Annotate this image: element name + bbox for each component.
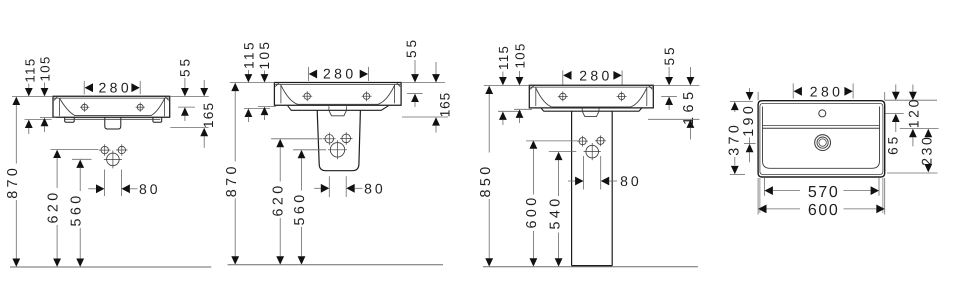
svg-text:620: 620 — [46, 189, 62, 223]
svg-text:280: 280 — [579, 68, 613, 84]
svg-text:80: 80 — [364, 181, 386, 197]
svg-text:55: 55 — [662, 44, 677, 65]
svg-text:105: 105 — [513, 42, 528, 68]
svg-text:165: 165 — [438, 92, 453, 117]
svg-text:165: 165 — [201, 102, 216, 128]
svg-text:570: 570 — [808, 184, 840, 201]
svg-text:850: 850 — [478, 163, 494, 197]
svg-text:190: 190 — [741, 103, 757, 137]
svg-text:280: 280 — [99, 80, 133, 96]
svg-text:55: 55 — [178, 56, 193, 77]
svg-text:55: 55 — [404, 37, 419, 58]
svg-text:870: 870 — [5, 165, 21, 199]
svg-text:105: 105 — [38, 55, 53, 81]
svg-text:600: 600 — [808, 202, 840, 219]
svg-text:80: 80 — [139, 181, 161, 197]
svg-text:560: 560 — [69, 192, 85, 226]
svg-text:540: 540 — [547, 195, 563, 229]
svg-text:115: 115 — [496, 45, 511, 70]
svg-text:560: 560 — [292, 191, 308, 225]
svg-text:280: 280 — [323, 66, 357, 82]
svg-text:65: 65 — [886, 134, 901, 155]
svg-text:105: 105 — [257, 40, 272, 70]
svg-text:80: 80 — [620, 173, 642, 189]
svg-text:870: 870 — [224, 163, 240, 197]
svg-text:120: 120 — [906, 97, 922, 128]
svg-text:230: 230 — [918, 135, 934, 166]
svg-text:620: 620 — [271, 182, 287, 216]
svg-text:370: 370 — [726, 122, 742, 156]
svg-text:115: 115 — [241, 40, 256, 69]
svg-text:600: 600 — [524, 194, 540, 228]
svg-text:115: 115 — [22, 57, 37, 82]
svg-text:280: 280 — [810, 83, 844, 99]
